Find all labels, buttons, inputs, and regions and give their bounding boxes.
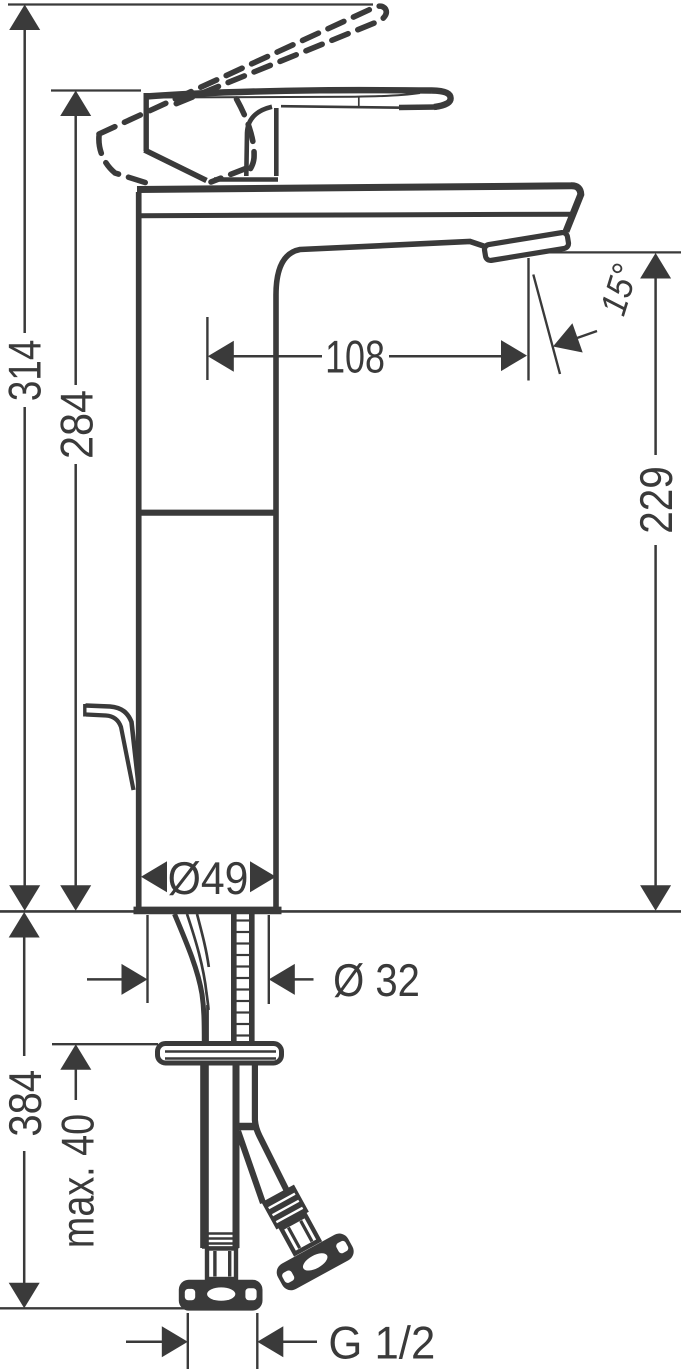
svg-text:Ø49: Ø49 (168, 852, 249, 904)
arrowhead G 1/2 right (257, 1326, 283, 1357)
svg-text:G 1/2: G 1/2 (328, 1317, 435, 1369)
faucet solid outline (134, 186, 581, 911)
label 229 (630, 466, 681, 534)
hose A threads (202, 1234, 239, 1248)
arrowhead 384 down (9, 1283, 40, 1309)
dashed base left and bottom (99, 136, 150, 184)
arrowhead 314 up (9, 5, 40, 31)
aerator (484, 232, 569, 261)
extension line bottom (384 end, hose end) (0, 1307, 188, 1309)
handle lever solid (145, 90, 451, 180)
hose B collar threads (262, 1185, 309, 1230)
label diameter 32 (333, 954, 420, 1006)
arrowhead 314 down (9, 885, 40, 911)
handle neck right edge (274, 108, 279, 176)
hose B fitting: collar, block, nut (rotated along hose axis) (243, 1174, 358, 1294)
handle base bottom (214, 177, 278, 182)
label 108 (325, 331, 385, 383)
dim line 229 (654, 276, 657, 455)
svg-text:229: 229 (630, 466, 681, 534)
extension line top (tip of open handle) (8, 3, 373, 5)
handle blade inner line (149, 93, 420, 98)
hose B nut (273, 1230, 357, 1294)
label diameter 49 (168, 852, 249, 904)
hose B diagonal left wall (238, 1131, 263, 1203)
arrowhead diameter 49 left (141, 861, 167, 892)
dim line 384 (23, 935, 26, 1056)
label 314 (0, 340, 51, 401)
handle blade bottom edge (281, 106, 412, 108)
dim line 108 (234, 355, 323, 358)
deck bottom line (140, 214, 575, 216)
svg-text:384: 384 (0, 1070, 51, 1137)
dim tails G 1/2 (126, 1341, 164, 1344)
threaded rod walls (231, 914, 237, 1041)
extension line spout tip top (229 / 15) (544, 251, 681, 253)
extension lines diameter 32 below counter (146, 915, 148, 1003)
label G 1/2 (328, 1317, 435, 1369)
svg-text:108: 108 (325, 331, 385, 383)
svg-text:314: 314 (0, 340, 51, 401)
dashed lever outline (99, 6, 386, 134)
below counter: hoses, rod, flange (158, 914, 290, 1279)
hose A connector block (207, 1249, 236, 1280)
label 384 (0, 1070, 51, 1137)
handle blade tip arc (432, 91, 451, 108)
handle base slant (145, 150, 207, 181)
threaded rod ticks (237, 921, 250, 1036)
arrowhead diameter 32 right (269, 964, 295, 995)
arrowhead 108 left (208, 341, 234, 372)
arrowhead 284 down (60, 885, 91, 911)
extension line 284 top (51, 89, 141, 91)
hose A curved top (175, 914, 205, 1043)
extension line faucet axis (108 left) (206, 317, 208, 380)
hose B connector block (281, 1215, 319, 1253)
arrowhead 384 up (9, 912, 40, 938)
base bottom bar (134, 907, 282, 915)
counter / mounting surface line (0, 910, 681, 913)
mounting flange (158, 1044, 282, 1064)
arrowhead 108 right (501, 340, 527, 371)
dashed neck lower (211, 168, 247, 182)
arrowhead diameter 49 right (250, 861, 276, 892)
hose B vertical wall (255, 1065, 289, 1195)
arrowhead diameter 32 left (122, 964, 148, 995)
arrowhead 284 up (60, 91, 91, 117)
handle blade tick (358, 96, 360, 106)
handle neck left curve (246, 107, 272, 176)
label max. 40 (52, 1114, 104, 1248)
extension line spout tip vertical (108 right / 15) (527, 258, 529, 381)
deck top edge with right corner (137, 186, 581, 232)
dashed neck (237, 99, 255, 175)
hose A tube below flange (200, 1065, 209, 1248)
svg-text:Ø 32: Ø 32 (333, 954, 420, 1006)
15 degree arrow tail (565, 331, 597, 342)
svg-text:284: 284 (50, 390, 102, 459)
hose B elbow cap (240, 1123, 256, 1131)
pull rod (85, 704, 139, 790)
body right edge and spout underside (276, 242, 488, 910)
arrowhead 15 degrees (553, 323, 583, 352)
handle blade top edge (146, 90, 432, 96)
body left edge (136, 192, 142, 909)
15 degree slant line (533, 275, 560, 375)
dim line max.40 stem (75, 1067, 78, 1100)
arrowhead 229 down (640, 885, 671, 911)
arrowhead 229 up (640, 253, 671, 279)
hose A nut (179, 1280, 263, 1311)
svg-text:max. 40: max. 40 (52, 1114, 104, 1248)
extension lines G 1/2 (187, 1313, 189, 1369)
extension line flange top (max.40) (52, 1043, 158, 1045)
dim tails diameter 32 (87, 978, 124, 981)
dim line 314 (23, 27, 26, 333)
handle blade bottom thick end (399, 104, 437, 110)
label 15 degrees (592, 259, 646, 320)
dim line 284 (74, 113, 77, 385)
arrowhead max.40 up (60, 1044, 91, 1070)
handle base left edge (143, 93, 148, 151)
label 284 (50, 390, 102, 459)
handle open position dashed (99, 6, 386, 184)
body joint line (142, 510, 275, 516)
arrowhead G 1/2 left (162, 1326, 188, 1357)
